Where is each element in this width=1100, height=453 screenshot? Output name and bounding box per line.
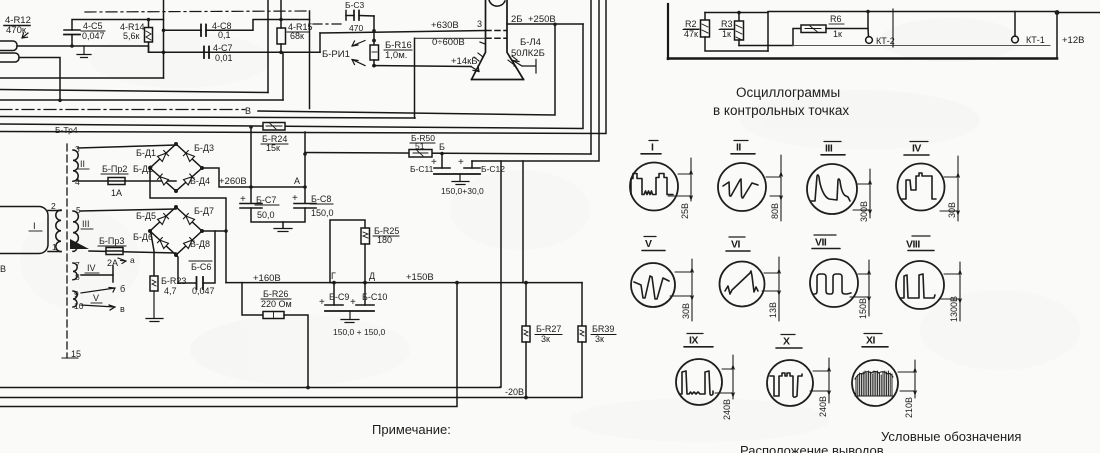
svg-text:IV: IV	[87, 263, 96, 273]
wire winding II-3 to bridge1	[78, 145, 176, 148]
capacitor Б-С3	[345, 0, 365, 33]
spark gap Б-РИ1	[352, 41, 365, 66]
connector box 1	[0, 41, 17, 51]
separator tick	[892, 9, 894, 47]
svg-text:R2: R2	[685, 19, 697, 29]
oscillogram IV label	[912, 143, 921, 155]
bottom right captions	[740, 429, 1021, 453]
svg-text:Б-R23: Б-R23	[161, 276, 186, 286]
oscillogram VIII label	[906, 239, 920, 251]
svg-text:+260В: +260В	[219, 176, 247, 187]
svg-text:VI: VI	[731, 239, 741, 251]
ground under C5 wire	[77, 46, 91, 58]
oscillogram V waveform	[634, 276, 669, 299]
oscillogram II circle	[718, 163, 766, 211]
capacitor 4-C7	[203, 47, 205, 59]
svg-text:Б-Д3: Б-Д3	[194, 143, 214, 153]
winding III	[73, 211, 78, 251]
svg-text:Примечание:: Примечание:	[372, 422, 451, 437]
winding IV	[73, 263, 77, 280]
svg-text:Б-Л4: Б-Л4	[520, 37, 541, 48]
svg-text:240В: 240В	[722, 399, 732, 420]
bottom bus line y407	[0, 283, 457, 407]
svg-text:КТ-2: КТ-2	[876, 36, 895, 46]
diode Б-Д8	[184, 238, 195, 249]
long vertical x523 down	[522, 161, 524, 283]
oscillogram VIII waveform	[900, 274, 935, 298]
test point KT-2	[867, 29, 870, 37]
resistor 4-R14	[120, 22, 145, 41]
note text	[372, 422, 451, 437]
TOP RIGHT SUBCIRCUIT	[668, 4, 1100, 59]
capacitor Б-С10	[364, 283, 366, 305]
svg-text:Б-Д1: Б-Д1	[136, 148, 156, 158]
svg-text:150В: 150В	[858, 298, 868, 319]
anode arrow left	[471, 66, 479, 72]
svg-text:30В: 30В	[681, 303, 691, 319]
resistor Б-R26 branch	[242, 283, 263, 315]
rail +160V/+150V	[226, 282, 582, 284]
wire W3 corner to R16 top	[319, 33, 321, 52]
oscillogram III dimension line	[853, 169, 872, 218]
top long wire	[768, 11, 1057, 13]
oscillogram XI circle	[852, 360, 898, 406]
svg-text:VII: VII	[815, 237, 827, 249]
svg-text:Расположение выводов: Расположение выводов	[740, 443, 884, 453]
svg-text:Г: Г	[331, 271, 336, 281]
svg-text:IX: IX	[689, 335, 698, 347]
svg-text:+160В: +160В	[253, 273, 281, 284]
common plate and ground of C11 C12	[434, 173, 480, 175]
capacitor 4-C5	[64, 29, 80, 31]
winding IV output bar	[81, 274, 113, 276]
bus line y131 with Tp4 label (to v606)	[0, 0, 606, 134]
fuse Б-Пр3	[89, 251, 176, 253]
resistor Б-R25	[361, 228, 370, 244]
capacitor Б-С11	[441, 154, 443, 169]
svg-text:Б-Д5: Б-Д5	[136, 211, 156, 221]
svg-text:10: 10	[74, 301, 84, 311]
winding V	[73, 291, 77, 307]
winding II	[73, 150, 78, 181]
svg-text:15: 15	[71, 349, 81, 359]
wire +630V	[320, 31, 486, 34]
svg-text:3к: 3к	[595, 334, 604, 344]
svg-text:Б-R27: Б-R27	[536, 324, 561, 334]
long vertical x501 down	[500, 161, 502, 387]
svg-text:Б-R26: Б-R26	[263, 289, 288, 299]
svg-text:+: +	[240, 194, 246, 205]
svg-text:220 Ом: 220 Ом	[261, 299, 292, 309]
long vertical x268	[267, 0, 269, 93]
diode Б-Д1	[158, 151, 169, 162]
svg-text:II: II	[736, 142, 741, 154]
winding V output arrows б and в	[81, 288, 115, 294]
faint wire to KT-2	[793, 45, 1050, 47]
oscillogram VII waveform	[813, 274, 851, 294]
capacitor 4-C8	[200, 25, 202, 37]
svg-text:Осциллограммы: Осциллограммы	[736, 85, 840, 100]
primary connector big box	[0, 207, 48, 254]
R25 loop	[330, 220, 365, 283]
bridge1 output to +260V	[202, 168, 305, 187]
wire from box2	[19, 58, 60, 101]
oscillogram II label	[736, 142, 741, 154]
module boundary dash-dot	[85, 11, 309, 12]
diode Б-Д4	[184, 174, 195, 185]
resistor Б-R39	[581, 283, 583, 326]
svg-text:Б-Пр3: Б-Пр3	[99, 236, 124, 246]
svg-text:+: +	[292, 193, 298, 204]
svg-text:Б-Д8: Б-Д8	[190, 239, 210, 249]
svg-text:Б-С3: Б-С3	[345, 0, 365, 10]
svg-text:Б-С11: Б-С11	[410, 164, 434, 174]
wire y161 from x501 to v599	[472, 0, 599, 161]
svg-text:+12В: +12В	[1062, 35, 1084, 46]
wire 2Б +250В	[507, 23, 583, 25]
connector box 2	[0, 53, 19, 62]
svg-text:Условные обозначения: Условные обозначения	[881, 429, 1021, 444]
transformer Б-Тр4 core	[66, 144, 68, 358]
resistor Б-R24 on line y131	[263, 123, 285, 131]
svg-text:Б-С10: Б-С10	[362, 292, 387, 302]
oscillogram IV dimension line	[940, 156, 960, 221]
svg-text:470: 470	[349, 23, 363, 33]
svg-text:9: 9	[74, 289, 79, 299]
capacitor Б-С7	[240, 203, 262, 205]
svg-text:+: +	[350, 297, 356, 308]
bus line y100	[0, 99, 283, 101]
svg-text:V: V	[93, 293, 99, 303]
resistor Б-R16	[373, 16, 375, 45]
svg-text:25В: 25В	[680, 203, 690, 219]
svg-text:50ЛК2Б: 50ЛК2Б	[511, 48, 545, 59]
svg-text:8: 8	[75, 272, 80, 282]
svg-text:в: в	[120, 304, 125, 314]
oscillogram IX label	[689, 335, 698, 347]
svg-text:4-С7: 4-С7	[213, 43, 233, 53]
wire +14kV to anode	[374, 65, 471, 68]
svg-text:2Б: 2Б	[511, 14, 523, 25]
wire from box1	[17, 46, 149, 52]
svg-text:+: +	[319, 297, 325, 308]
capacitor Б-С8	[294, 203, 316, 205]
long vertical x310	[309, 11, 311, 109]
vertical from R24 line through node A	[304, 132, 306, 203]
partial label at left edge	[0, 264, 6, 274]
oscillogram VI label	[731, 239, 741, 251]
bus line y78	[0, 77, 164, 79]
svg-text:+250В: +250В	[528, 14, 556, 25]
wire winding III-5 to bridge2	[80, 209, 176, 211]
svg-text:Б-С7: Б-С7	[256, 195, 276, 205]
svg-text:БR39: БR39	[592, 324, 614, 334]
svg-text:В: В	[0, 264, 6, 274]
svg-text:51: 51	[415, 141, 425, 151]
resistor 4-R15	[288, 22, 313, 41]
oscillogram X dimension line	[810, 358, 831, 403]
svg-text:180: 180	[377, 235, 392, 245]
svg-text:Б-РИ1: Б-РИ1	[322, 49, 350, 60]
oscillogram XI label	[866, 335, 876, 347]
svg-text:50,0: 50,0	[257, 210, 275, 220]
vertical v768	[767, 13, 769, 52]
svg-text:КТ-1: КТ-1	[1026, 35, 1045, 45]
node A label	[294, 176, 300, 186]
svg-text:R6: R6	[830, 14, 842, 24]
oscillogram IX circle	[676, 359, 722, 405]
oscillogram VI dimension line	[762, 257, 781, 321]
resistor R6	[801, 25, 826, 33]
bottom bus line y387	[0, 386, 500, 389]
right corner +12V	[1057, 13, 1100, 59]
svg-text:0,047: 0,047	[192, 286, 215, 296]
vertical 0-600V wire down	[414, 38, 416, 118]
svg-text:150,0: 150,0	[311, 208, 334, 218]
oscillogram VI waveform	[725, 271, 758, 294]
common plate and ground C9 C10	[325, 310, 374, 312]
label Б-Л4 50ЛК2Б	[511, 37, 545, 59]
oscillogram IV circle	[898, 164, 945, 211]
resistor R3	[705, 12, 768, 14]
svg-text:1А: 1А	[111, 188, 122, 198]
svg-text:Б-Д6: Б-Д6	[133, 232, 153, 242]
bus line y116	[0, 117, 415, 119]
svg-text:0,01: 0,01	[215, 53, 233, 63]
oscillogram IX dimension line	[715, 355, 735, 399]
oscillogram XI dimension line	[898, 360, 917, 398]
svg-text:V: V	[645, 238, 652, 250]
svg-text:+: +	[458, 157, 464, 168]
svg-text:1к: 1к	[722, 29, 731, 39]
test point KT-1	[1014, 12, 1016, 37]
svg-text:150,0+30,0: 150,0+30,0	[441, 186, 484, 196]
oscillogram I label	[651, 142, 654, 154]
svg-text:Б-С8: Б-С8	[311, 194, 331, 204]
fuse Б-Пр2	[78, 180, 176, 182]
svg-text:1,0м.: 1,0м.	[385, 50, 407, 61]
svg-text:В: В	[245, 106, 251, 116]
svg-text:240В: 240В	[818, 396, 828, 417]
long vertical x283	[282, 52, 284, 100]
oscillogram X waveform	[770, 373, 802, 397]
svg-text:Б-Пр2: Б-Пр2	[102, 164, 127, 174]
oscillogram VII dimension line	[850, 260, 871, 316]
resistor Б-R23	[151, 231, 155, 276]
oscillogram I waveform	[631, 174, 673, 195]
svg-text:0,047: 0,047	[82, 31, 105, 41]
resistor Б-R27	[524, 281, 528, 285]
bus line y124 (to v583)	[0, 24, 583, 129]
svg-text:Б: Б	[439, 142, 445, 152]
svg-text:1300В: 1300В	[949, 296, 959, 322]
wire top W1	[72, 20, 164, 31]
node Г	[332, 281, 336, 285]
oscillogram XI waveform	[856, 371, 892, 396]
diode bridge 2 (Б-Д5..Б-Д8)	[150, 207, 202, 255]
svg-text:Б-С9: Б-С9	[329, 292, 349, 302]
oscillogram III circle	[807, 164, 857, 214]
capacitor Б-С9	[333, 283, 335, 305]
oscillograms title	[713, 85, 849, 118]
svg-text:5: 5	[76, 205, 81, 215]
wire 0-600V	[415, 37, 486, 39]
svg-text:30В: 30В	[947, 202, 957, 218]
node Б	[440, 152, 444, 156]
bus dash-dot line with node B	[0, 109, 245, 111]
oscillogram IX waveform	[680, 371, 713, 395]
svg-text:III: III	[825, 143, 833, 155]
svg-text:15к: 15к	[266, 143, 280, 153]
svg-text:+150В: +150В	[406, 272, 434, 283]
primary winding I	[56, 210, 61, 252]
svg-text:3к: 3к	[541, 334, 550, 344]
diode bridge 1 (Б-Д1..Б-Д4)	[150, 144, 202, 191]
vertical from R24 line to C7	[250, 127, 252, 203]
wire to Б-R50	[305, 153, 591, 155]
svg-text:210В: 210В	[904, 397, 914, 418]
oscillogram II waveform	[723, 179, 758, 198]
wire W2 with capacitor 4-C8	[164, 29, 202, 31]
oscillogram III label	[825, 143, 833, 155]
anode terminal right	[513, 60, 536, 74]
oscillogram V label	[645, 238, 652, 250]
svg-text:-20В: -20В	[505, 387, 524, 397]
left border line	[667, 4, 669, 59]
oscillogram VII label	[815, 237, 827, 249]
svg-text:I: I	[33, 221, 36, 232]
svg-text:1к: 1к	[833, 29, 842, 39]
svg-text:VIII: VIII	[906, 239, 920, 251]
oscillogram X label	[783, 336, 790, 348]
svg-text:А: А	[294, 176, 300, 186]
svg-text:Б-Д4: Б-Д4	[190, 176, 210, 186]
svg-text:XI: XI	[866, 335, 876, 347]
long vertical v591	[590, 0, 592, 154]
oscillogram II dimension line	[766, 155, 783, 221]
diode Б-Д6	[158, 238, 169, 249]
svg-text:4-С5: 4-С5	[83, 21, 103, 31]
arrow a	[118, 258, 126, 264]
junction	[70, 44, 74, 48]
oscillogram X circle	[767, 360, 813, 406]
svg-text:0,1: 0,1	[218, 30, 231, 40]
svg-text:Б-С6: Б-С6	[191, 262, 211, 272]
svg-text:7: 7	[75, 260, 80, 270]
resistor R2	[704, 13, 706, 21]
oscillogram III waveform	[811, 175, 850, 201]
bridge2 output wire	[202, 230, 226, 232]
oscillogram V circle	[631, 263, 675, 307]
svg-text:80В: 80В	[770, 203, 780, 219]
oscillogram V dimension line	[670, 259, 694, 321]
svg-text:3: 3	[477, 19, 482, 29]
oscillogram VIII dimension line	[940, 262, 962, 321]
diode Б-Д2	[158, 174, 169, 185]
diode Б-Д3	[184, 151, 195, 162]
diode Б-Д5	[158, 214, 169, 225]
bus line y90	[0, 90, 268, 93]
svg-text:Д: Д	[369, 271, 375, 281]
oscillogram I circle	[630, 163, 678, 211]
capacitor Б-С6	[176, 255, 196, 283]
svg-text:а: а	[130, 255, 135, 265]
svg-text:470к: 470к	[6, 25, 27, 36]
ground under R23	[146, 291, 163, 322]
svg-text:0÷600В: 0÷600В	[432, 37, 465, 48]
svg-text:4: 4	[75, 177, 80, 187]
node B wire to CRT heater	[258, 24, 555, 115]
svg-text:III: III	[82, 219, 90, 229]
CRT grid dashed pins	[486, 31, 506, 39]
bottom bus line y397	[0, 397, 582, 399]
svg-text:Б-Тр4: Б-Тр4	[55, 125, 78, 135]
diode Б-Д7	[184, 214, 195, 225]
oscillogram VII circle	[810, 259, 858, 307]
svg-text:+14кБ: +14кБ	[451, 56, 478, 67]
svg-text:Б-Д7: Б-Д7	[194, 206, 214, 216]
oscillogram IV waveform	[902, 173, 936, 199]
svg-text:4,7: 4,7	[164, 286, 177, 296]
svg-text:3: 3	[75, 144, 80, 154]
svg-text:2: 2	[51, 201, 56, 211]
svg-text:13В: 13В	[768, 302, 778, 318]
svg-text:68к: 68к	[290, 31, 304, 41]
svg-text:X: X	[783, 336, 790, 348]
svg-text:+630В: +630В	[431, 20, 459, 31]
resistor 4-R12 (potentiometer) label	[5, 15, 31, 36]
svg-text:II: II	[80, 159, 85, 169]
svg-text:5,6к: 5,6к	[123, 31, 140, 41]
svg-text:300В: 300В	[859, 201, 869, 222]
potentiometer 4-R12 wiper arrow	[22, 33, 28, 38]
bottom thick line	[668, 57, 1057, 60]
oscillogram VI circle	[720, 262, 765, 307]
svg-text:R3: R3	[721, 19, 733, 29]
svg-text:IV: IV	[912, 143, 921, 155]
long vertical x163 from top	[163, 0, 165, 78]
svg-text:б: б	[120, 284, 125, 294]
svg-text:в контрольных точках: в контрольных точках	[713, 103, 849, 118]
svg-text:47к: 47к	[684, 29, 698, 39]
svg-text:150,0 + 150,0: 150,0 + 150,0	[333, 327, 386, 337]
oscillogram VIII circle	[896, 261, 944, 309]
capacitor Б-С12	[471, 161, 473, 168]
resistor Б-R50	[409, 150, 432, 158]
svg-text:1: 1	[52, 242, 57, 252]
oscillogram I dimension line	[668, 158, 693, 201]
CRT Б-Л4	[472, 0, 524, 80]
core tap black triangle	[70, 239, 89, 249]
wire under R3	[739, 29, 801, 46]
node Д	[363, 281, 367, 285]
svg-text:2А: 2А	[107, 258, 118, 268]
